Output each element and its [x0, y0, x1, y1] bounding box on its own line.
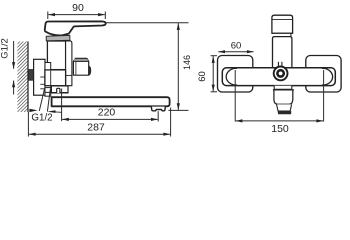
- extension line aerator bottom (146): [168, 109, 188, 111]
- svg-text:60: 60: [231, 41, 242, 52]
- cartridge column: [47, 41, 65, 70]
- neck pin: [57, 88, 60, 93]
- diverter circle: [274, 67, 288, 81]
- svg-text:60: 60: [197, 71, 208, 82]
- dimension 90: [48, 12, 106, 20]
- svg-text:220: 220: [98, 106, 116, 118]
- dimension 220: [62, 118, 158, 120]
- dimension 150: [236, 120, 323, 122]
- aerator bottom dark: [278, 111, 292, 114]
- extension line spout pivot: [61, 89, 63, 122]
- spout (side view): [52, 97, 170, 106]
- aerator: [151, 107, 165, 111]
- spout tube (front): [273, 90, 294, 104]
- left nut arc: [226, 68, 237, 85]
- diverter knob (side view): [73, 58, 90, 75]
- G1/2 arrows (left): [13, 41, 15, 95]
- faucet body block: [45, 70, 66, 86]
- spout mount (front): [274, 86, 292, 90]
- center line left connection: [234, 70, 236, 122]
- center line right connection: [323, 70, 325, 122]
- body bar: [222, 68, 335, 86]
- cartridge column (front): [273, 37, 292, 68]
- wall surface line: [27, 42, 29, 113]
- G1/2 arrow left-pointing: [47, 110, 55, 113]
- screw mark above circle: [278, 62, 282, 67]
- cartridge collar: [46, 35, 70, 41]
- G1/2 arrow right-pointing at wall: [29, 109, 37, 112]
- extension line aerator: [157, 111, 159, 121]
- G1/2 arrow tail: [55, 111, 62, 113]
- spout neck: [51, 86, 68, 93]
- leader lines G1/2 bottom: [39, 89, 50, 111]
- svg-text:150: 150: [271, 123, 289, 135]
- eccentric wall connector: [28, 70, 35, 81]
- svg-text:90: 90: [72, 2, 84, 14]
- dimension 60 vertical: [211, 56, 217, 92]
- svg-text:G1/2: G1/2: [0, 38, 11, 59]
- lever neck: [274, 33, 291, 36]
- right wall flange: [306, 56, 341, 93]
- dimension 146: [177, 23, 179, 110]
- extension line lever top (146): [106, 22, 188, 24]
- body front slab: [66, 41, 72, 86]
- svg-text:G1/2: G1/2: [31, 112, 52, 123]
- wall hatch band: [10, 24, 34, 140]
- connection nut column: [45, 63, 51, 97]
- lever knob (front view): [272, 15, 293, 33]
- extension line spout tip: [170, 108, 172, 137]
- svg-text:287: 287: [87, 121, 105, 133]
- svg-text:146: 146: [182, 55, 192, 70]
- extension line wall bottom: [27, 112, 29, 137]
- left wall flange: [218, 56, 253, 93]
- dimension 287: [29, 133, 170, 135]
- dimension 60 horizontal: [218, 51, 253, 53]
- aerator (front): [277, 104, 292, 111]
- lever handle (side view): [45, 21, 106, 35]
- knob nub: [89, 66, 91, 75]
- right nut arc: [322, 68, 333, 85]
- escutcheon flange: [34, 59, 45, 95]
